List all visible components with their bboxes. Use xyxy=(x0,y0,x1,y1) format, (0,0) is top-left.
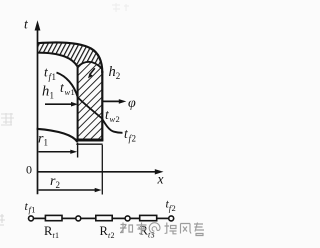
r1 extension line xyxy=(77,143,79,158)
thin line under wall xyxy=(76,143,102,145)
svg-text:h: h xyxy=(42,84,49,100)
wall inner surface edge (r1) xyxy=(77,67,79,142)
glyph 君 xyxy=(194,223,204,236)
faint bottom-left watermark fragment xyxy=(0,214,5,225)
faint left-edge watermark fragment xyxy=(1,113,14,125)
svg-text:1: 1 xyxy=(44,137,49,147)
wire xyxy=(62,217,76,219)
wall front rim arc xyxy=(78,62,103,69)
wire xyxy=(112,217,125,219)
temperature curve through wall tw1 -> tw2 xyxy=(78,98,102,119)
tube wall top annular face (hatched band) xyxy=(38,42,103,73)
svg-text:1: 1 xyxy=(71,87,75,97)
heat flow arrow into wall (h1 side) xyxy=(45,103,73,105)
svg-text:1: 1 xyxy=(50,90,55,100)
t axis (vertical) xyxy=(37,28,39,194)
svg-text:2: 2 xyxy=(56,180,61,190)
wall bottom thick edge xyxy=(76,139,103,142)
node tw2 xyxy=(125,216,130,221)
x axis arrowhead xyxy=(155,169,164,174)
svg-text:2: 2 xyxy=(172,203,176,213)
node tf2 xyxy=(169,216,174,221)
faint top-right smudge xyxy=(112,3,129,12)
svg-text:h: h xyxy=(109,64,116,80)
lambda leader arrow on wall xyxy=(90,68,95,74)
svg-text:2: 2 xyxy=(132,133,137,143)
svg-text:φ: φ xyxy=(128,96,136,111)
x axis (horizontal) xyxy=(38,171,157,173)
svg-text:2: 2 xyxy=(116,114,120,124)
resistor Rt2 xyxy=(96,215,112,220)
glyph 挽 xyxy=(165,223,177,234)
wire xyxy=(130,217,139,219)
svg-text:1: 1 xyxy=(52,72,57,82)
node tf1 xyxy=(29,216,34,221)
wall inner top arc xyxy=(38,53,78,67)
wall outer top arc xyxy=(38,42,103,73)
svg-text:2: 2 xyxy=(116,71,121,81)
glyph @ xyxy=(149,223,160,234)
heat flow arrow phi out of wall xyxy=(103,100,120,102)
wire xyxy=(157,217,169,219)
glyph 知 xyxy=(120,223,133,234)
inner radius arc r1 (bottom left) xyxy=(37,129,78,142)
r2 dimension line xyxy=(39,189,96,191)
wall outer surface edge (r2) xyxy=(101,71,103,141)
svg-text:1: 1 xyxy=(55,231,59,240)
svg-text:2: 2 xyxy=(111,231,115,240)
temperature curve tf1 -> tw1 xyxy=(57,73,78,98)
node tw1 xyxy=(76,216,81,221)
wire xyxy=(81,217,96,219)
svg-text:1: 1 xyxy=(31,205,35,215)
resistor Rt3 xyxy=(140,215,157,220)
r1 dimension line xyxy=(39,151,72,153)
t axis arrowhead xyxy=(35,20,41,30)
svg-text:x: x xyxy=(157,171,164,186)
svg-text:0: 0 xyxy=(26,163,32,177)
glyph 乎 xyxy=(137,223,147,234)
temperature curve tw2 -> tf2 xyxy=(102,118,123,133)
wire xyxy=(34,217,46,219)
resistor Rt1 xyxy=(45,215,62,220)
tube wall front section face (hatched) xyxy=(78,62,103,140)
watermark 知乎@挽风君 (drawn glyph blocks) xyxy=(120,223,204,236)
r2 extension line xyxy=(101,145,103,195)
glyph 风 xyxy=(181,224,192,234)
